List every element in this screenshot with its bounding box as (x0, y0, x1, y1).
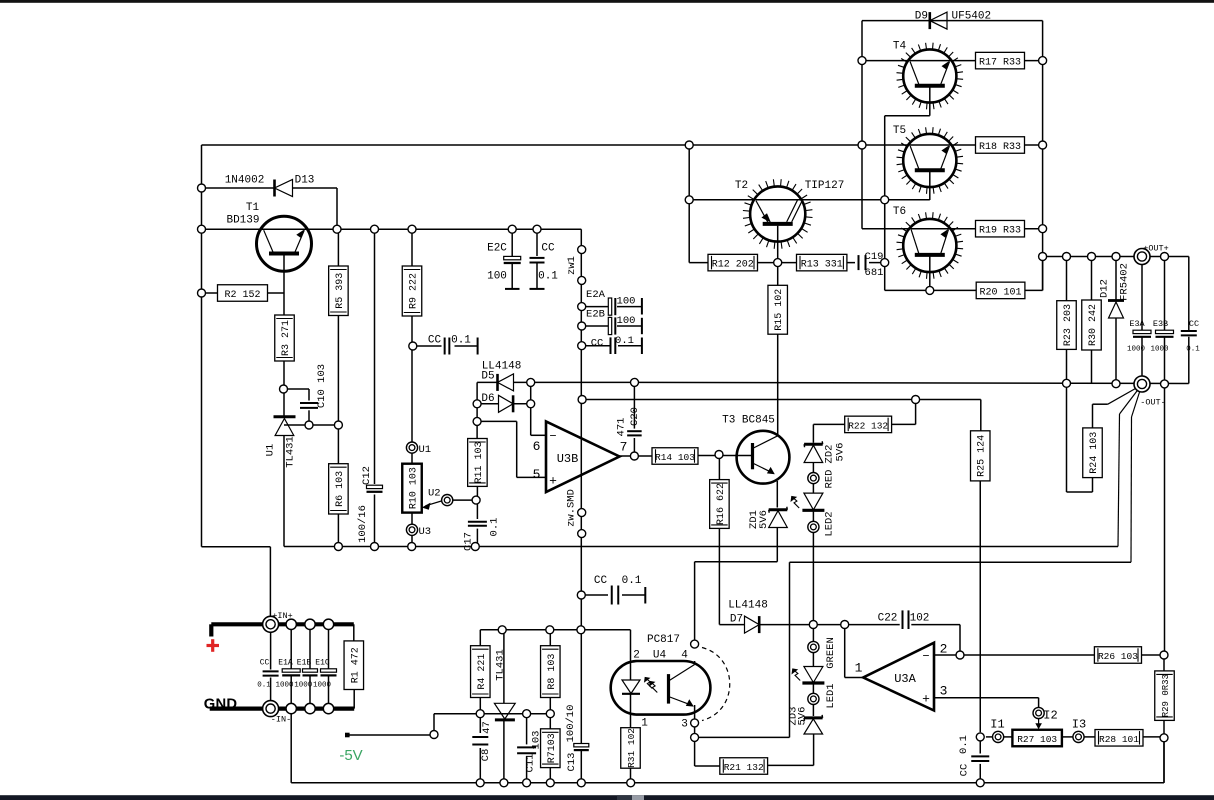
svg-text:T2: T2 (735, 180, 748, 192)
svg-text:−: − (549, 430, 556, 444)
svg-text:100: 100 (617, 315, 636, 327)
svg-text:1N4002: 1N4002 (225, 175, 265, 187)
svg-text:0.1: 0.1 (615, 335, 634, 347)
svg-text:R24 103: R24 103 (1089, 432, 1100, 474)
svg-text:0.1: 0.1 (257, 682, 271, 690)
svg-text:R31 102: R31 102 (626, 728, 637, 768)
svg-text:C13: C13 (566, 753, 578, 772)
svg-text:R7103: R7103 (547, 733, 558, 763)
svg-text:1000: 1000 (294, 682, 313, 690)
svg-text:FR5402: FR5402 (1119, 263, 1131, 301)
svg-text:R8 103: R8 103 (547, 654, 558, 690)
svg-text:R5 393: R5 393 (335, 273, 346, 309)
svg-text:-IN-: -IN- (271, 715, 291, 725)
svg-text:5V6: 5V6 (758, 510, 770, 529)
svg-text:TIP127: TIP127 (805, 180, 845, 192)
svg-text:E1B: E1B (297, 659, 312, 668)
svg-text:R26 103: R26 103 (1098, 651, 1138, 662)
svg-text:R11 103: R11 103 (474, 441, 485, 483)
svg-text:E2A: E2A (586, 289, 606, 301)
svg-text:471: 471 (616, 418, 628, 437)
svg-text:3: 3 (681, 719, 688, 731)
svg-text:T6: T6 (893, 206, 906, 218)
svg-text:E2B: E2B (586, 309, 605, 321)
svg-text:U4: U4 (653, 650, 667, 662)
svg-text:D5: D5 (481, 371, 494, 383)
svg-text:GREEN: GREEN (825, 637, 837, 669)
svg-text:1000: 1000 (313, 682, 332, 690)
svg-text:C22: C22 (878, 613, 898, 625)
svg-text:U3: U3 (419, 526, 432, 538)
svg-text:2: 2 (633, 650, 640, 662)
svg-text:0.1: 0.1 (1186, 346, 1200, 354)
svg-text:C19: C19 (865, 251, 884, 263)
svg-text:−: − (922, 650, 929, 664)
svg-text:E1A: E1A (278, 659, 293, 668)
svg-text:C12: C12 (361, 466, 373, 485)
svg-text:0.1: 0.1 (958, 735, 970, 754)
svg-text:R22 132: R22 132 (848, 420, 888, 431)
svg-text:2: 2 (940, 642, 948, 657)
svg-text:LED1: LED1 (825, 683, 837, 708)
svg-text:R18 R33: R18 R33 (979, 142, 1021, 153)
svg-text:1000: 1000 (1127, 346, 1146, 354)
svg-text:102: 102 (910, 613, 930, 625)
svg-text:U3B: U3B (557, 452, 579, 466)
svg-text:E3B: E3B (1153, 319, 1168, 329)
svg-text:R14 103: R14 103 (655, 452, 695, 463)
svg-text:5V6: 5V6 (835, 443, 847, 462)
svg-text:U1: U1 (419, 444, 432, 456)
svg-text:R28 101: R28 101 (1099, 734, 1139, 745)
svg-text:UF5402: UF5402 (952, 11, 992, 23)
svg-text:1000: 1000 (275, 682, 294, 690)
svg-text:U1: U1 (265, 444, 277, 457)
svg-text:R25 124: R25 124 (977, 435, 988, 477)
svg-text:T1: T1 (246, 202, 260, 214)
svg-text:3: 3 (940, 684, 948, 699)
svg-text:CC: CC (1189, 319, 1199, 329)
svg-text:1: 1 (855, 661, 863, 676)
svg-text:I2: I2 (1043, 709, 1057, 723)
svg-text:CC: CC (428, 335, 442, 347)
svg-text:R1 472: R1 472 (350, 647, 361, 683)
svg-text:R12 202: R12 202 (712, 260, 754, 271)
svg-text:CC: CC (591, 337, 604, 349)
svg-text:T5: T5 (893, 125, 906, 137)
svg-text:-5V: -5V (339, 747, 362, 764)
svg-text:D7: D7 (730, 614, 743, 626)
svg-text:+IN+: +IN+ (272, 611, 292, 621)
svg-text:0.1: 0.1 (489, 518, 501, 537)
svg-text:PC817: PC817 (647, 634, 680, 646)
svg-text:U2: U2 (428, 488, 441, 500)
svg-text:681: 681 (865, 267, 884, 279)
svg-text:0.1: 0.1 (622, 575, 642, 587)
svg-text:+: + (922, 692, 930, 707)
svg-text:R19 R33: R19 R33 (979, 226, 1021, 237)
svg-text:R4 221: R4 221 (477, 654, 488, 690)
svg-text:C11: C11 (525, 754, 537, 773)
svg-text:4: 4 (681, 650, 688, 662)
svg-text:7: 7 (620, 440, 628, 455)
svg-text:R6 103: R6 103 (335, 471, 346, 507)
svg-text:E1C: E1C (315, 659, 330, 668)
svg-text:LL4148: LL4148 (728, 600, 768, 612)
svg-text:D12: D12 (1099, 279, 1111, 298)
svg-text:TL431: TL431 (285, 436, 297, 468)
svg-text:CC: CC (959, 764, 971, 777)
svg-text:R17 R33: R17 R33 (979, 58, 1021, 69)
svg-text:0.1: 0.1 (451, 335, 471, 347)
svg-text:+: + (549, 474, 557, 489)
svg-text:100/10: 100/10 (565, 705, 577, 743)
svg-text:CC: CC (594, 575, 608, 587)
svg-text:1: 1 (641, 718, 648, 730)
svg-text:C8: C8 (480, 749, 492, 762)
svg-text:-OUT-: -OUT- (1140, 398, 1166, 408)
svg-text:R13 331: R13 331 (801, 260, 843, 271)
svg-text:D9: D9 (915, 11, 928, 23)
svg-text:R21 132: R21 132 (724, 762, 764, 773)
svg-text:zw1: zw1 (566, 256, 578, 275)
svg-text:I3: I3 (1072, 718, 1086, 732)
svg-text:T4: T4 (893, 41, 907, 53)
svg-text:C17: C17 (463, 532, 475, 551)
svg-text:R30 242: R30 242 (1088, 304, 1099, 346)
svg-text:RED: RED (824, 470, 836, 489)
svg-text:100/16: 100/16 (357, 505, 369, 543)
svg-text:E2C: E2C (487, 243, 507, 255)
svg-text:R10 103: R10 103 (409, 467, 420, 509)
svg-text:CC: CC (260, 659, 270, 668)
svg-text:0.1: 0.1 (538, 271, 558, 283)
svg-text:R3 271: R3 271 (281, 320, 292, 356)
svg-text:47: 47 (481, 721, 493, 734)
svg-text:1000: 1000 (1150, 346, 1169, 354)
svg-text:GND: GND (204, 697, 238, 713)
svg-text:LED2: LED2 (824, 511, 836, 536)
svg-text:6: 6 (533, 439, 541, 454)
svg-text:5: 5 (533, 467, 541, 482)
svg-text:100: 100 (487, 271, 507, 283)
svg-text:100: 100 (617, 295, 636, 307)
svg-text:BD139: BD139 (226, 215, 259, 227)
svg-text:R27 103: R27 103 (1017, 734, 1057, 745)
svg-text:T3 BC845: T3 BC845 (722, 415, 775, 427)
svg-text:R20 101: R20 101 (980, 287, 1022, 298)
svg-text:C20: C20 (629, 407, 641, 426)
svg-text:E3A: E3A (1129, 319, 1145, 329)
svg-text:R29 0R33: R29 0R33 (1161, 674, 1171, 717)
svg-text:D6: D6 (481, 393, 494, 405)
svg-text:R15 102: R15 102 (774, 289, 785, 331)
svg-text:R2 152: R2 152 (224, 290, 260, 301)
svg-text:TL431: TL431 (495, 649, 507, 681)
svg-text:R16 622: R16 622 (716, 483, 727, 525)
svg-text:CC: CC (541, 243, 555, 255)
svg-text:zw.SMD: zw.SMD (566, 489, 578, 527)
svg-text:5V6: 5V6 (797, 707, 809, 726)
svg-text:D13: D13 (295, 175, 315, 187)
svg-text:I1: I1 (990, 718, 1004, 732)
svg-text:+OUT+: +OUT+ (1143, 244, 1169, 254)
svg-text:R23 203: R23 203 (1063, 304, 1074, 346)
svg-text:C10 103: C10 103 (316, 364, 328, 408)
svg-text:U3A: U3A (894, 672, 916, 686)
svg-text:R9 222: R9 222 (409, 273, 420, 309)
svg-text:103: 103 (531, 731, 543, 750)
